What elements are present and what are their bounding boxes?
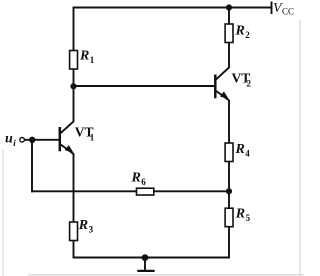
- resistor R1 body: [70, 51, 78, 70]
- input base junction dot: [29, 137, 35, 143]
- wire VT1 base: [25, 139, 60, 141]
- svg-text:2: 2: [245, 30, 250, 40]
- ground bar: [137, 270, 154, 272]
- node VCC/R2 junction dot: [226, 4, 232, 10]
- svg-text:CC: CC: [282, 7, 294, 17]
- wire R1 bottom to node A: [73, 69, 75, 87]
- transistor VT2 bar: [214, 75, 217, 99]
- svg-text:2: 2: [247, 79, 252, 89]
- wire R6 row right: [154, 190, 229, 192]
- svg-text:5: 5: [246, 213, 251, 223]
- svg-text:3: 3: [89, 225, 94, 235]
- wire base node drop: [31, 140, 33, 193]
- resistor R6 body: [137, 188, 154, 195]
- resistor R4 body: [225, 143, 233, 162]
- resistor R2 body: [225, 24, 233, 43]
- wire R4 bottom to node B: [228, 162, 230, 193]
- svg-text:1: 1: [90, 133, 95, 143]
- node A junction dot: [70, 83, 76, 89]
- svg-text:u: u: [5, 132, 13, 147]
- svg-text:1: 1: [90, 55, 95, 65]
- transistor VT1 bar: [59, 127, 62, 151]
- frame edge left: [2, 150, 4, 276]
- wire R1 top: [73, 7, 75, 51]
- transistor VT2 emitter arrow: [220, 91, 229, 99]
- frame edge right: [299, 20, 301, 276]
- resistor R3 body: [70, 222, 78, 241]
- transistor VT1 emitter arrow: [65, 145, 74, 153]
- ground junction dot: [142, 254, 149, 261]
- input terminal circle: [20, 138, 25, 143]
- svg-text:R: R: [131, 171, 141, 186]
- wire R6 row left: [31, 190, 137, 192]
- svg-text:R: R: [78, 218, 88, 233]
- wire top rail VCC: [74, 7, 272, 9]
- wire R3 bottom: [73, 241, 75, 259]
- svg-text:R: R: [235, 142, 245, 157]
- VCC terminal tick: [271, 2, 273, 15]
- wire R2 top: [228, 7, 230, 25]
- frame edge bottom: [28, 274, 304, 276]
- svg-text:4: 4: [245, 149, 250, 159]
- svg-text:R: R: [79, 49, 89, 64]
- ground stem: [144, 258, 146, 271]
- wire VT1 emitter: [61, 145, 74, 223]
- wire node A to VT2 base: [74, 85, 216, 87]
- svg-text:R: R: [235, 24, 245, 39]
- svg-text:R: R: [235, 207, 245, 222]
- node B junction dot R4/R5/R6: [226, 188, 232, 194]
- wire R2 bottom / VT2 collector: [216, 43, 229, 80]
- wire VT2 emitter: [216, 91, 229, 143]
- wire node B to R5: [228, 191, 230, 208]
- svg-text:6: 6: [141, 177, 146, 187]
- wire R5 bottom: [228, 227, 230, 259]
- wire VT1 collector: [61, 86, 74, 133]
- wire bottom rail: [74, 257, 230, 259]
- resistor R5 body: [225, 208, 233, 227]
